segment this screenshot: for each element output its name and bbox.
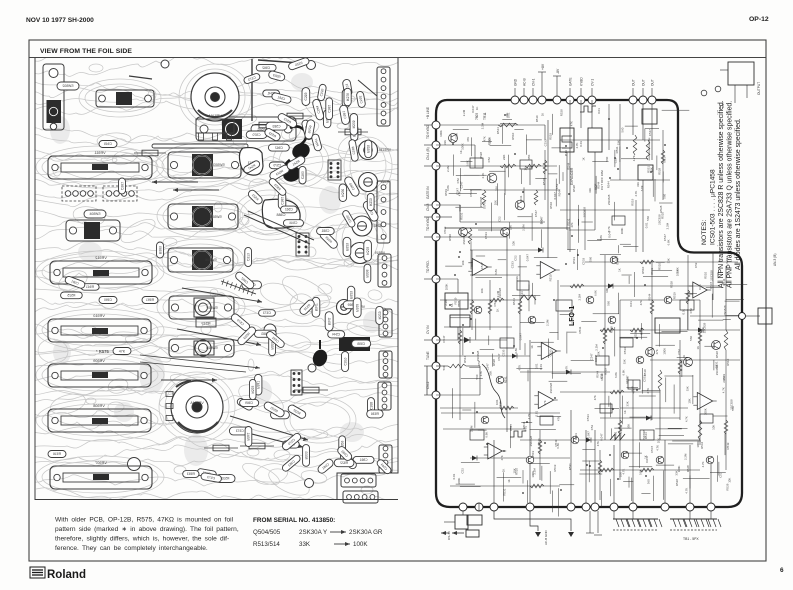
svg-text:47K: 47K <box>639 300 643 305</box>
svg-text:R536: R536 <box>371 412 379 416</box>
svg-text:6.8K: 6.8K <box>514 348 518 354</box>
svg-text:C547: C547 <box>650 445 654 452</box>
svg-text:C544: C544 <box>289 221 297 225</box>
svg-text:+8V: +8V <box>541 63 545 70</box>
transistor Q555 <box>501 228 510 237</box>
svg-text:R544: R544 <box>557 189 561 196</box>
svg-text:47K: 47K <box>479 371 483 376</box>
wire <box>436 236 507 238</box>
wire <box>436 394 480 396</box>
svg-text:SW503: SW503 <box>213 163 225 167</box>
svg-text:R525: R525 <box>349 291 353 299</box>
resistor R504 <box>482 190 486 205</box>
foil pour C588 <box>262 199 300 228</box>
svg-text:0.047: 0.047 <box>594 354 598 362</box>
svg-text:R528: R528 <box>572 185 576 192</box>
svg-text:SW502: SW502 <box>62 84 73 88</box>
resistor R590 <box>157 242 164 258</box>
pcb ground pour shading <box>50 73 381 466</box>
svg-text:4.7K: 4.7K <box>701 461 705 467</box>
connector CN507 <box>379 445 392 473</box>
svg-text:2.2M: 2.2M <box>546 319 550 326</box>
op-amp IC501b <box>536 262 559 279</box>
wires below boxes <box>566 152 568 230</box>
svg-text:C544: C544 <box>332 333 340 337</box>
svg-text:10K: 10K <box>711 425 715 430</box>
svg-text:TO PED.: TO PED. <box>426 260 430 273</box>
svg-text:R544: R544 <box>496 127 500 134</box>
svg-text:R541: R541 <box>86 285 94 289</box>
svg-text:0.01: 0.01 <box>698 284 702 290</box>
small box under edge <box>642 109 657 124</box>
svg-text:R536: R536 <box>341 189 345 197</box>
diode scatter <box>472 248 703 461</box>
svg-text:33K: 33K <box>626 401 630 406</box>
svg-text:R544: R544 <box>607 181 611 188</box>
svg-text:SW507: SW507 <box>206 306 218 310</box>
svg-text:100K: 100K <box>488 137 492 144</box>
svg-text:FROM SERIAL NO. 413850:: FROM SERIAL NO. 413850: <box>253 517 335 524</box>
resistor R564 <box>204 445 238 451</box>
jumper wire W2 <box>251 59 253 121</box>
svg-text:0.01: 0.01 <box>579 141 583 147</box>
svg-text:C547: C547 <box>590 353 594 360</box>
wires <box>632 104 634 135</box>
svg-text:-8V: -8V <box>556 68 560 74</box>
svg-text:33K: 33K <box>494 186 498 191</box>
resistor R502 <box>500 164 516 168</box>
svg-text:NOTES:: NOTES: <box>701 220 708 245</box>
resistor R562 <box>240 443 274 449</box>
switch SW503 <box>168 152 241 178</box>
svg-text:560: 560 <box>689 336 693 341</box>
svg-text:With older PCB, OP-12B, R575,: With older PCB, OP-12B, R575, 47KΩ is mo… <box>55 517 234 524</box>
svg-text:R533: R533 <box>221 477 229 481</box>
svg-text:R529: R529 <box>377 311 381 319</box>
svg-text:R529: R529 <box>369 198 373 206</box>
capacitor C590 <box>99 297 117 304</box>
footnote paragraph <box>55 517 239 553</box>
svg-text:33K: 33K <box>617 140 621 145</box>
svg-text:100K: 100K <box>457 478 461 485</box>
svg-text:100K: 100K <box>677 465 681 472</box>
svg-text:R519: R519 <box>535 115 539 122</box>
resistor R565 <box>252 122 282 128</box>
svg-text:0.01: 0.01 <box>597 108 601 114</box>
svg-text:0.01: 0.01 <box>681 308 685 314</box>
svg-text:2SC828: 2SC828 <box>583 207 587 218</box>
svg-text:GATE IN: GATE IN <box>426 186 430 199</box>
svg-text:4.7K: 4.7K <box>518 365 522 371</box>
svg-text:33K: 33K <box>685 386 689 391</box>
svg-text:100K: 100K <box>675 269 679 276</box>
svg-text:2SK30A Y: 2SK30A Y <box>299 529 327 536</box>
potentiometer VR504 <box>166 381 223 433</box>
svg-text:10K: 10K <box>461 260 465 265</box>
wire trunk x592 <box>591 100 593 128</box>
svg-text:C533: C533 <box>502 349 506 356</box>
rail y429 <box>443 428 526 430</box>
foil pour P513 <box>239 148 263 176</box>
connector CN505 <box>379 351 392 378</box>
svg-text:C52: C52 <box>600 373 604 379</box>
svg-text:10K: 10K <box>508 225 512 230</box>
junction dots <box>449 114 666 494</box>
svg-text:0.01: 0.01 <box>644 222 648 228</box>
slider potentiometer VR508 <box>48 404 151 432</box>
svg-text:R531: R531 <box>568 463 572 470</box>
box small <box>466 530 479 537</box>
svg-text:0.047: 0.047 <box>645 455 649 463</box>
svg-text:0.047: 0.047 <box>600 433 604 441</box>
svg-text:R516: R516 <box>53 452 61 456</box>
trimmer VR514 <box>359 173 392 192</box>
svg-text:560: 560 <box>663 193 667 198</box>
transistor Q502 (black blob) <box>281 126 306 184</box>
Roland logo <box>30 567 86 581</box>
svg-text:SW506: SW506 <box>205 258 217 262</box>
svg-text:R528: R528 <box>725 483 729 490</box>
svg-text:C555: C555 <box>357 342 365 346</box>
svg-text:1K: 1K <box>507 479 511 483</box>
svg-text:560: 560 <box>630 386 634 391</box>
svg-text:6.8K: 6.8K <box>667 239 671 245</box>
svg-text:GATE: GATE <box>568 78 572 86</box>
svg-text:1K: 1K <box>582 157 586 161</box>
svg-text:47K: 47K <box>655 349 659 354</box>
mounting holes <box>161 60 169 68</box>
svg-text:C545: C545 <box>104 142 112 146</box>
svg-text:R544: R544 <box>520 291 524 298</box>
inner top rule <box>29 57 766 59</box>
svg-text:OP-12: OP-12 <box>749 16 769 23</box>
svg-text:R510: R510 <box>511 132 515 139</box>
svg-text:6: 6 <box>780 567 784 574</box>
svg-text:33K: 33K <box>623 359 627 364</box>
switch SW502 <box>96 90 154 107</box>
svg-text:R519: R519 <box>201 322 210 326</box>
wiring rails grid <box>436 104 740 500</box>
board edge connector nodes (top) <box>511 96 656 104</box>
diode D501 <box>464 337 470 343</box>
svg-text:C570: C570 <box>252 133 260 137</box>
svg-text:10K: 10K <box>512 468 516 473</box>
svg-text:R519: R519 <box>499 401 503 408</box>
op-amp IC505 <box>689 282 711 298</box>
svg-text:1K: 1K <box>524 167 528 171</box>
svg-text:2.2M: 2.2M <box>522 224 526 231</box>
jumper wire W4 <box>129 76 152 79</box>
svg-text:C52: C52 <box>493 301 497 307</box>
svg-text:4.7K: 4.7K <box>564 366 568 372</box>
svg-text:1K: 1K <box>541 113 545 117</box>
sine curve symbol <box>482 364 505 418</box>
wire drop <box>544 125 546 140</box>
svg-text:C533: C533 <box>581 257 585 264</box>
svg-text:GND: GND <box>513 78 517 86</box>
wires around boxes <box>436 278 458 280</box>
capacitor/resistor scatter on pcb <box>61 57 393 483</box>
svg-text:2.2M: 2.2M <box>462 109 466 116</box>
svg-text:SW508: SW508 <box>206 346 218 350</box>
svg-text:4.7K: 4.7K <box>655 445 659 451</box>
resistor comb bank 2 <box>670 511 721 541</box>
IC IC501 <box>328 160 341 180</box>
connector CN506 <box>378 382 391 410</box>
svg-text:Roland: Roland <box>47 569 86 581</box>
svg-text:R528: R528 <box>609 326 613 333</box>
svg-text:OUT: OUT <box>650 79 654 86</box>
svg-text:0.01: 0.01 <box>629 301 633 307</box>
slider potentiometer VR510 <box>48 314 151 342</box>
transistor Q551 <box>449 134 458 143</box>
svg-text:CUT OFF 10M: CUT OFF 10M <box>600 170 604 190</box>
svg-text:R510: R510 <box>537 438 541 445</box>
svg-text:R510: R510 <box>549 201 553 208</box>
svg-text:0.047: 0.047 <box>725 256 729 264</box>
svg-text:6.8K: 6.8K <box>466 160 470 166</box>
svg-text:33K: 33K <box>667 258 671 263</box>
trimmer VR513A <box>359 141 392 160</box>
svg-text:6.8K: 6.8K <box>640 185 644 191</box>
svg-text:R510: R510 <box>549 274 553 281</box>
svg-text:0.047: 0.047 <box>483 201 487 209</box>
svg-text:R531: R531 <box>650 267 654 274</box>
svg-text:R536: R536 <box>365 269 369 277</box>
svg-text:R510: R510 <box>726 358 730 365</box>
svg-text:C573: C573 <box>236 429 244 433</box>
IC IC503 <box>291 370 302 395</box>
svg-text:ICS01-503 . . . . μPC1458: ICS01-503 . . . . μPC1458 <box>710 169 717 245</box>
wire trunk x530 <box>529 340 531 503</box>
svg-text:10K: 10K <box>656 438 660 443</box>
pcb board outline <box>35 58 398 500</box>
svg-text:C533: C533 <box>623 347 627 354</box>
svg-text:6.8K: 6.8K <box>556 443 560 449</box>
svg-text:TUNE: TUNE <box>426 351 430 360</box>
svg-text:100K: 100K <box>704 408 708 415</box>
svg-text:2.2M: 2.2M <box>578 293 582 300</box>
svg-text:C52: C52 <box>677 349 681 355</box>
svg-text:47K: 47K <box>543 400 547 405</box>
svg-text:NOV 10 1977 SH-2000: NOV 10 1977 SH-2000 <box>26 17 94 24</box>
svg-text:C561: C561 <box>280 197 284 205</box>
slider potentiometer VR512 <box>50 256 152 284</box>
svg-text:22K: 22K <box>502 155 506 160</box>
svg-text:R531: R531 <box>614 431 618 438</box>
svg-text:0.01: 0.01 <box>507 112 511 118</box>
board edge connector nodes (left) <box>432 121 440 399</box>
svg-text:R528: R528 <box>715 351 719 358</box>
top supply stubs and labels <box>513 63 654 96</box>
svg-text:100K: 100K <box>716 272 720 279</box>
svg-text:C52: C52 <box>514 255 518 261</box>
slider potentiometer VR509 <box>48 359 151 387</box>
svg-text:560: 560 <box>606 301 610 306</box>
wires right cluster <box>690 315 742 317</box>
notes text block <box>701 100 742 288</box>
svg-text:4.7K: 4.7K <box>632 155 636 161</box>
svg-text:C52: C52 <box>461 468 465 474</box>
svg-text:2SC828: 2SC828 <box>479 197 483 208</box>
svg-text:C573: C573 <box>263 311 271 315</box>
svg-text:560: 560 <box>638 470 642 475</box>
op-amp IC501a <box>468 259 491 276</box>
svg-text:VR507: VR507 <box>95 461 107 465</box>
svg-text:1K: 1K <box>459 150 463 154</box>
svg-text:C52: C52 <box>694 262 698 268</box>
connector J1 vertical bracket <box>43 64 64 130</box>
potentiometer VR516 <box>191 73 239 140</box>
svg-text:R531: R531 <box>572 257 576 264</box>
switch SW504 <box>66 220 120 241</box>
double stub <box>589 511 591 533</box>
jumper diagonal arrow W10 <box>230 416 308 440</box>
svg-text:2SC828: 2SC828 <box>703 322 707 333</box>
svg-text:10K: 10K <box>728 478 732 483</box>
svg-text:P.13: P.13 <box>564 150 568 156</box>
svg-text:KYBD: KYBD <box>579 77 583 86</box>
switch SW508 <box>169 339 234 357</box>
svg-text:2.2M: 2.2M <box>470 425 474 432</box>
svg-text:R544: R544 <box>597 181 601 188</box>
svg-text:VIEW FROM THE FOIL SIDE: VIEW FROM THE FOIL SIDE <box>40 48 132 55</box>
svg-text:C533: C533 <box>511 261 515 268</box>
svg-text:R528: R528 <box>658 167 662 174</box>
svg-text:33K: 33K <box>488 371 492 376</box>
switch SW508 (dark) <box>339 337 370 351</box>
svg-text:C562: C562 <box>285 208 293 212</box>
svg-text:R553: R553 <box>187 472 195 476</box>
svg-text:C533: C533 <box>586 414 590 421</box>
svg-text:6.8K: 6.8K <box>494 269 498 275</box>
svg-text:VR516A: VR516A <box>208 114 222 118</box>
svg-text:TO KYBD: TO KYBD <box>426 124 430 139</box>
svg-text:OUT: OUT <box>631 79 635 86</box>
svg-text:VR512: VR512 <box>95 256 107 260</box>
resistor R566 <box>338 129 368 135</box>
svg-text:4.7K: 4.7K <box>622 469 626 475</box>
svg-text:10K: 10K <box>493 200 497 205</box>
svg-text:R544: R544 <box>648 293 652 300</box>
svg-text:R518: R518 <box>365 247 369 255</box>
svg-text:560: 560 <box>646 216 650 221</box>
svg-text:C583: C583 <box>272 124 280 128</box>
box TO PSU <box>467 515 482 525</box>
svg-text:R544: R544 <box>463 356 467 363</box>
svg-text:10K: 10K <box>605 288 609 293</box>
schematic board boundary (thick bus outline) <box>436 100 742 507</box>
svg-text:R525: R525 <box>67 294 75 298</box>
svg-text:C533: C533 <box>722 373 726 380</box>
svg-text:R518: R518 <box>251 385 255 393</box>
svg-text:VR511: VR511 <box>94 151 105 155</box>
svg-text:4.7K: 4.7K <box>634 191 638 197</box>
svg-text:CN-2: CN-2 <box>426 381 430 389</box>
resistor R516 <box>48 451 66 458</box>
svg-text:R536: R536 <box>352 120 356 128</box>
svg-text:R528: R528 <box>675 479 679 486</box>
svg-text:R591: R591 <box>146 298 154 302</box>
svg-text:C547: C547 <box>442 335 446 342</box>
switch SW501 <box>196 117 296 141</box>
svg-text:R531: R531 <box>578 326 582 333</box>
slider potentiometer VR507 <box>50 461 152 489</box>
svg-text:2SC828: 2SC828 <box>529 436 533 447</box>
svg-text:47K: 47K <box>500 455 504 460</box>
svg-text:C562: C562 <box>262 66 270 70</box>
svg-text:SW505: SW505 <box>210 215 222 219</box>
svg-text:C533: C533 <box>469 189 473 196</box>
svg-text:R510: R510 <box>448 234 452 241</box>
trimmer VR506 <box>337 300 366 315</box>
svg-text:100K: 100K <box>620 227 624 234</box>
jumper diagonal W9 <box>248 211 314 240</box>
jumper arrow A2 <box>177 329 261 345</box>
svg-text:C533: C533 <box>484 232 488 239</box>
resistor R507 <box>448 364 466 368</box>
connector CN504 <box>379 309 392 337</box>
svg-text:R531: R531 <box>615 146 619 153</box>
svg-text:R510: R510 <box>658 263 662 270</box>
svg-text:R531: R531 <box>504 376 508 383</box>
svg-text:pattern side (marked ∗ in abov: pattern side (marked ∗ in above drawing)… <box>55 526 239 533</box>
svg-text:33K: 33K <box>515 276 519 281</box>
resistor group scatter <box>458 150 728 488</box>
svg-text:2SC828: 2SC828 <box>462 234 466 245</box>
svg-text:R528: R528 <box>560 109 564 116</box>
svg-text:R519: R519 <box>454 297 458 304</box>
svg-text:VR513A: VR513A <box>378 148 391 152</box>
transistor Q552 <box>487 173 497 183</box>
svg-text:R533: R533 <box>304 451 308 459</box>
switch SW506 <box>168 248 233 272</box>
connector CN503 <box>378 254 391 287</box>
capacitor C545 <box>99 141 117 148</box>
svg-text:R518: R518 <box>355 304 359 312</box>
svg-text:R531: R531 <box>567 218 571 225</box>
module box B4 <box>655 318 680 333</box>
svg-text:100K: 100K <box>461 143 465 150</box>
svg-text:C547: C547 <box>534 210 538 217</box>
svg-text:1K: 1K <box>475 106 479 110</box>
svg-text:0.047: 0.047 <box>525 254 529 262</box>
svg-text:2SC828: 2SC828 <box>723 305 727 316</box>
svg-text:C52: C52 <box>555 183 559 189</box>
svg-text:R510: R510 <box>625 377 629 384</box>
svg-text:C562: C562 <box>275 146 283 150</box>
connector CN501 <box>377 67 390 126</box>
long rail y228 <box>445 227 570 229</box>
svg-text:R531: R531 <box>574 433 578 440</box>
svg-text:OUT: OUT <box>641 79 645 86</box>
resistor R501 <box>498 123 518 127</box>
svg-text:R519: R519 <box>531 450 535 457</box>
svg-text:1K: 1K <box>618 268 622 272</box>
svg-text:R541: R541 <box>246 432 250 440</box>
jumper arrow W7 <box>161 379 217 381</box>
jumper arrow W6 <box>173 189 219 191</box>
feeder wires to bottom connectors <box>479 380 711 511</box>
svg-text:6.8K: 6.8K <box>446 185 450 191</box>
svg-text:100K: 100K <box>445 283 449 290</box>
svg-text:C52: C52 <box>590 425 594 431</box>
svg-text:1K: 1K <box>682 355 686 359</box>
hatched jumper A3 <box>221 279 256 296</box>
rail y327 <box>444 326 512 328</box>
svg-text:R519: R519 <box>631 198 635 205</box>
resistor R511 <box>646 140 650 160</box>
